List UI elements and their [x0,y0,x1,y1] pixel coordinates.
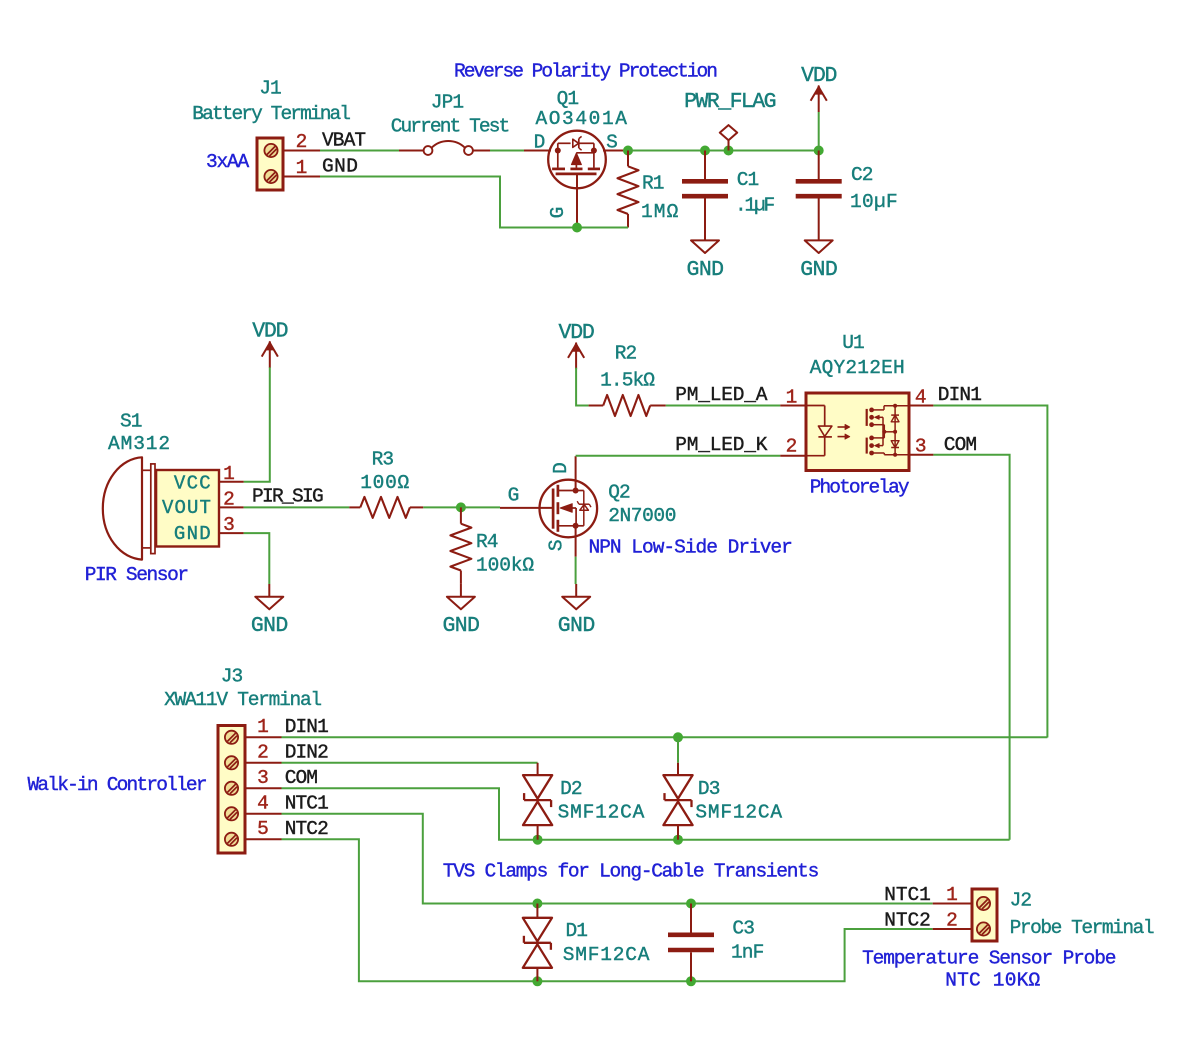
svg-text:4: 4 [257,792,268,814]
svg-text:Battery Terminal: Battery Terminal [192,103,350,125]
wire junction to Q2 gate [461,506,500,508]
sensor S1 body PIR [103,457,142,559]
wire VDD to R2 [576,368,589,406]
svg-text:D: D [550,463,572,474]
connector J2 screw 2 [977,922,990,935]
svg-text:GND: GND [800,258,837,282]
resistor R4 body [460,507,462,523]
svg-text:2: 2 [786,436,797,458]
svg-text:1: 1 [223,463,234,485]
svg-text:Reverse Polarity Protection: Reverse Polarity Protection [454,60,716,82]
svg-text:1: 1 [257,716,268,738]
connector J2 pin 2 [933,928,972,930]
junction at D1 top [532,899,542,909]
junction at D1 bottom [532,976,542,986]
svg-text:Q2: Q2 [608,482,630,504]
svg-text:3: 3 [915,436,926,458]
svg-text:2: 2 [296,131,307,153]
svg-text:GND: GND [442,614,479,638]
wire DIN2 row to D2 [282,762,538,764]
svg-text:Photorelay: Photorelay [810,477,910,499]
svg-text:J3: J3 [221,666,243,688]
svg-text:R1: R1 [642,173,664,195]
svg-text:COM: COM [285,767,318,789]
svg-text:VDD: VDD [252,320,287,344]
sensor S1 pin 2 VOUT [219,506,244,508]
junction at VDD/C2 [814,146,824,156]
connector J1 body [257,138,283,190]
svg-text:PM_LED_A: PM_LED_A [675,384,768,406]
svg-text:NTC 10KΩ: NTC 10KΩ [945,970,1040,992]
transistor Q2 body 2N7000 N-MOSFET [540,480,598,538]
photorelay U1 pin 2 [780,455,806,457]
svg-text:4: 4 [915,386,926,408]
connector J3 pin 4 NTC1 [245,813,282,815]
photorelay U1 internal body diodes [894,406,896,455]
svg-text:C2: C2 [851,164,873,186]
capacitor C1 body [704,151,706,180]
connector J3 pin 1 DIN1 [245,736,282,738]
svg-text:2: 2 [223,489,234,511]
ground under R4 [460,584,462,597]
svg-text:2: 2 [257,741,268,763]
svg-text:VCC: VCC [174,473,212,495]
connector J1 pin 1 [283,176,320,178]
svg-text:COM: COM [944,434,977,456]
junction at C3 bottom [686,976,696,986]
ground under C1 [691,240,719,253]
svg-text:J2: J2 [1010,889,1032,911]
sensor S1 pin 1 VCC [219,481,244,483]
svg-text:G: G [547,207,569,218]
svg-text:5: 5 [257,818,268,840]
wire U1 pin4 to J3 pin1 riser [933,406,1047,738]
wire VBAT J1 to JP1 [320,150,399,152]
svg-text:100Ω: 100Ω [360,472,410,494]
svg-text:PIR_SIG: PIR_SIG [252,486,323,508]
svg-text:10µF: 10µF [850,191,898,213]
wire VDD stem to rail [818,112,820,151]
wire D3 top stub [677,737,679,763]
wire DIN1 row [282,736,1048,738]
wire NTC1 row [282,814,933,904]
junction at D2 bottom [533,835,543,845]
wire U1 pin3 to COM rail riser [933,455,1009,840]
svg-text:R2: R2 [615,342,637,364]
svg-text:GND: GND [251,614,288,638]
wire R2 to U1 pin1 [666,405,781,407]
svg-text:PWR_FLAG: PWR_FLAG [684,90,775,114]
connector J2 body [972,889,997,941]
svg-text:VOUT: VOUT [162,497,212,519]
transistor Q1 body AO3401A P-MOSFET [548,131,606,189]
svg-text:Q1: Q1 [557,88,579,110]
connector J3 screw 3 [225,782,238,795]
junction at D3 top [673,732,683,742]
wire R3 to junction [423,506,461,508]
connector J2 pin 1 [933,903,972,905]
connector J1 screw 2 [264,144,277,157]
photorelay U1 pin 1 [780,405,806,407]
junction at Q1 gate [572,223,582,233]
svg-text:NPN Low-Side Driver: NPN Low-Side Driver [589,537,792,559]
svg-text:NTC2: NTC2 [285,818,328,840]
svg-text:NTC1: NTC1 [884,884,930,906]
wire S1 pin2 to R3 [244,506,350,508]
resistor R3 body [349,506,360,508]
wire VDD to S1 pin1 [244,367,270,481]
resistor R2 body [589,405,604,407]
svg-text:S: S [546,540,568,551]
photorelay U1 internal output MOSFETs [866,409,868,426]
svg-text:DIN2: DIN2 [285,741,328,763]
svg-text:3xAA: 3xAA [206,151,250,173]
svg-text:SMF12CA: SMF12CA [558,802,646,824]
tvs diode D3 body [677,763,679,775]
connector J3 pin 2 DIN2 [245,762,282,764]
svg-text:1: 1 [786,386,797,408]
junction at C1 [700,146,710,156]
svg-text:1nF: 1nF [731,942,764,964]
wire Q2 drain to U1 pin2 [576,455,781,457]
photorelay U1 pin 3 [909,454,933,456]
ground under Q2 [575,584,577,597]
svg-text:TVS Clamps for Long-Cable Tran: TVS Clamps for Long-Cable Transients [443,860,819,882]
connector J3 pin 5 NTC2 [245,838,282,840]
junction at R4 top [456,502,466,512]
svg-text:GND: GND [174,523,212,545]
svg-text:DIN1: DIN1 [938,384,981,406]
photorelay U1 pin 4 [909,405,933,407]
ground under S1 [268,584,270,597]
junction at C3 top [686,899,696,909]
wire COM row [282,788,1010,839]
connector J3 body [218,726,245,854]
jumper JP1 symbol [399,150,424,152]
svg-text:GND: GND [322,156,358,178]
svg-text:1MΩ: 1MΩ [641,201,679,223]
svg-text:3: 3 [223,514,234,536]
resistor R1 body [627,151,629,167]
connector J3 screw 1 [225,731,238,744]
svg-text:VBAT: VBAT [322,130,365,152]
svg-text:2: 2 [946,910,957,932]
svg-text:NTC1: NTC1 [285,792,328,814]
connector J2 screw 1 [977,897,990,910]
wire Q2 source to ground [575,557,577,584]
svg-text:G: G [508,485,519,507]
svg-text:NTC2: NTC2 [884,910,930,932]
svg-text:R3: R3 [372,448,394,470]
connector J3 screw 4 [225,807,238,820]
svg-text:GND: GND [558,614,595,638]
svg-text:JP1: JP1 [431,92,464,114]
power VDD top [811,87,819,101]
connector J1 pin 2 [283,150,320,152]
power VDD above R2 [568,344,576,358]
photorelay U1 light arrows [838,426,849,428]
svg-text:GND: GND [687,258,724,282]
svg-text:PIR Sensor: PIR Sensor [85,564,188,586]
svg-text:U1: U1 [842,332,864,354]
svg-text:Walk-in Controller: Walk-in Controller [28,774,206,796]
ground under C2 [805,240,833,253]
svg-text:Temperature Sensor Probe: Temperature Sensor Probe [862,948,1116,970]
svg-text:D1: D1 [566,920,588,942]
svg-text:1.5kΩ: 1.5kΩ [600,370,655,392]
svg-text:2N7000: 2N7000 [608,505,676,527]
svg-text:PM_LED_K: PM_LED_K [675,434,768,456]
wire main VDD rail [628,150,819,152]
svg-text:R4: R4 [476,531,498,553]
connector J3 screw 5 [225,833,238,846]
tvs diode D1 body [536,904,538,918]
svg-text:AM312: AM312 [108,433,171,455]
capacitor C3 body [690,904,692,933]
svg-text:DIN1: DIN1 [285,716,328,738]
photorelay U1 internal LED [806,405,825,407]
svg-text:100kΩ: 100kΩ [476,555,534,577]
svg-text:1: 1 [296,157,307,179]
svg-text:SMF12CA: SMF12CA [563,944,651,966]
svg-text:AQY212EH: AQY212EH [810,357,905,379]
junction at Q1 source node [623,146,633,156]
svg-text:D2: D2 [560,778,582,800]
connector J3 screw 2 [225,756,238,769]
wire NTC2 row [282,839,933,981]
wire gnd return from J1 pin1 to Q1 gate and R1 [320,177,628,228]
svg-text:C3: C3 [732,917,754,939]
wire S1 pin3 to ground [244,533,270,584]
capacitor C2 body [818,151,820,180]
svg-text:VDD: VDD [559,321,594,345]
svg-text:Probe Terminal: Probe Terminal [1010,917,1154,939]
svg-text:1: 1 [946,884,957,906]
svg-text:VDD: VDD [801,64,836,88]
svg-text:AO3401A: AO3401A [535,108,628,130]
tvs diode D2 body [537,763,539,775]
junction at D3 bottom [673,835,683,845]
photorelay U1 body [806,393,909,471]
connector J3 pin 3 COM [245,787,282,789]
svg-text:XWA11V Terminal: XWA11V Terminal [164,689,321,711]
wire JP1 to Q1 drain [490,150,524,152]
svg-text:S1: S1 [120,411,142,433]
svg-text:.1µF: .1µF [735,195,775,217]
svg-text:D3: D3 [698,778,720,800]
connector J1 screw 1 [264,170,277,183]
sensor S1 pin 3 GND [219,532,244,534]
power VDD above PIR sensor [262,343,270,357]
svg-text:SMF12CA: SMF12CA [695,802,783,824]
svg-text:3: 3 [257,767,268,789]
junction at PWR_FLAG [724,146,734,156]
svg-text:J1: J1 [259,78,281,100]
svg-text:Current Test: Current Test [391,116,509,138]
svg-text:C1: C1 [737,169,759,191]
